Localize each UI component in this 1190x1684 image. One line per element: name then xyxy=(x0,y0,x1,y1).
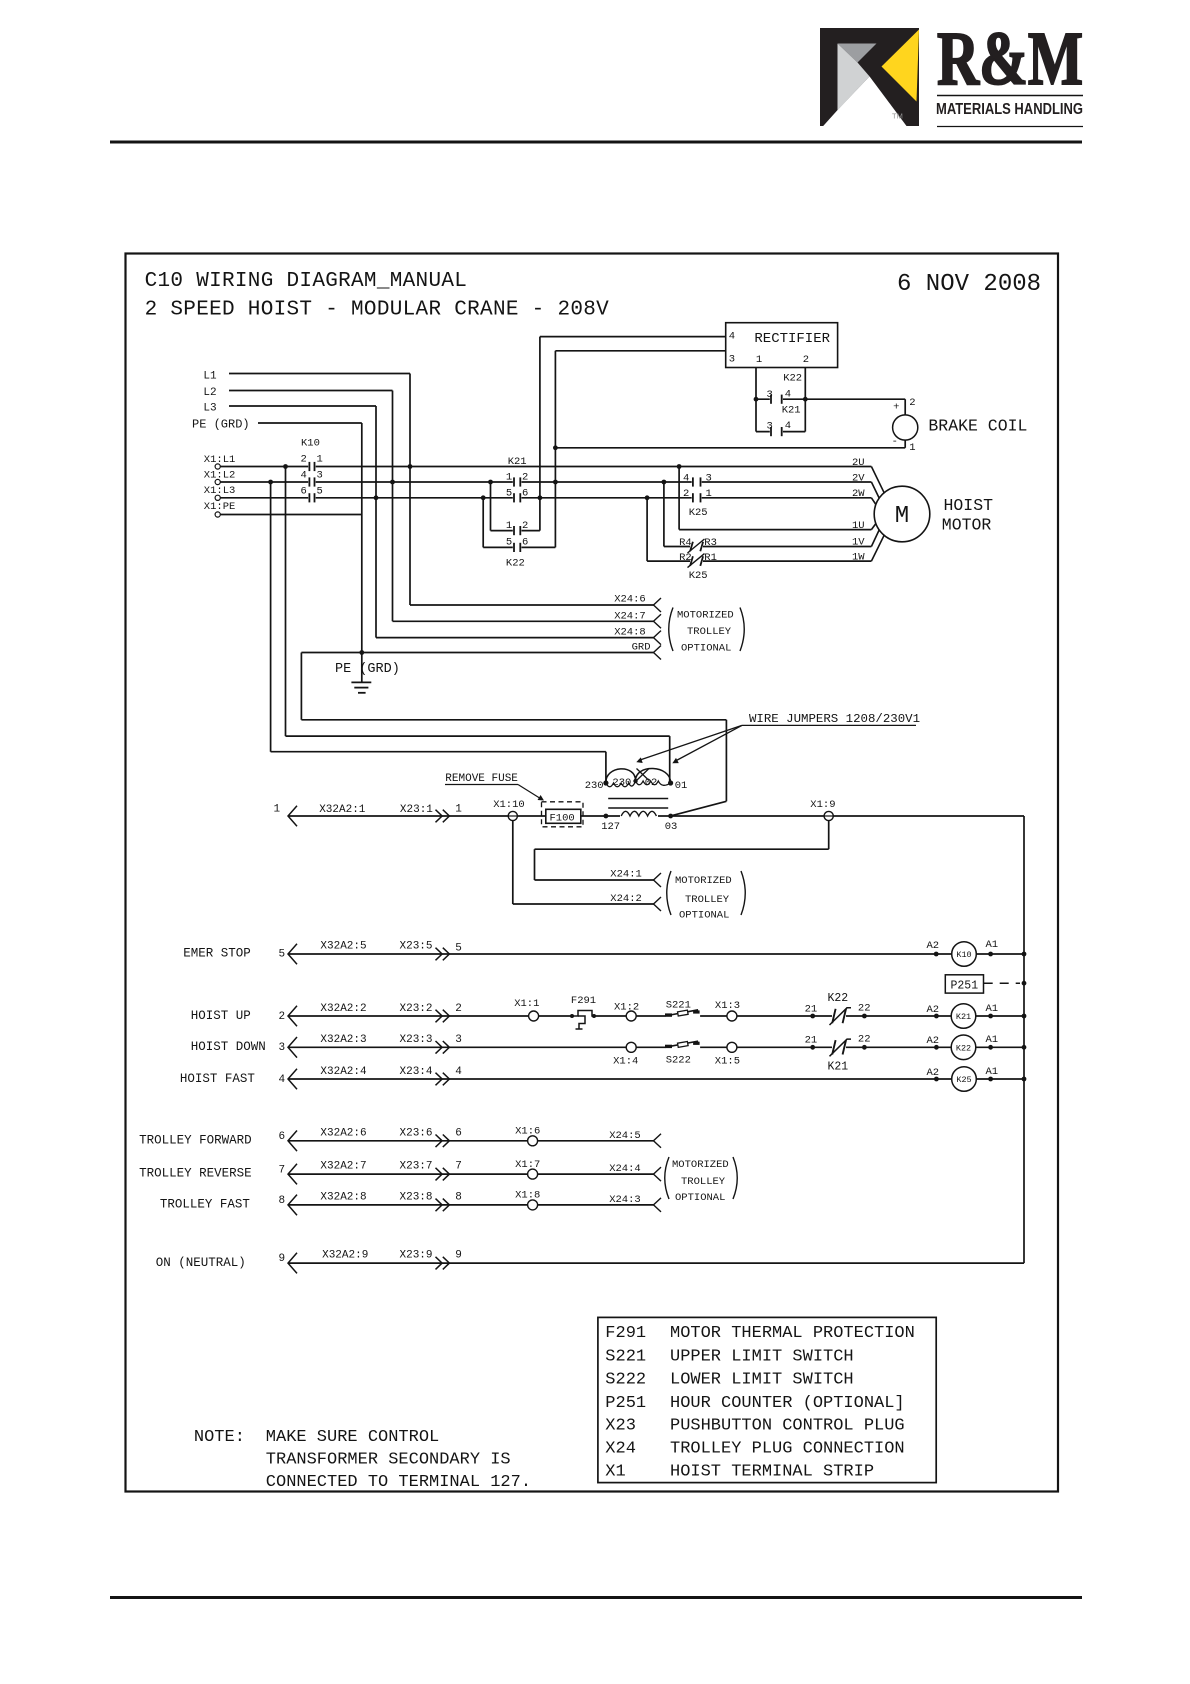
svg-text:2W: 2W xyxy=(852,488,865,500)
svg-text:F291: F291 xyxy=(571,995,596,1007)
svg-text:1: 1 xyxy=(274,804,281,816)
svg-text:PUSHBUTTON CONTROL PLUG: PUSHBUTTON CONTROL PLUG xyxy=(670,1417,905,1436)
svg-text:K10: K10 xyxy=(301,438,320,450)
svg-text:X23:2: X23:2 xyxy=(400,1003,433,1015)
svg-text:S221: S221 xyxy=(605,1348,646,1367)
svg-text:X1:L1: X1:L1 xyxy=(204,454,236,466)
svg-text:OPTIONAL: OPTIONAL xyxy=(679,910,729,922)
svg-text:TROLLEY FAST: TROLLEY FAST xyxy=(160,1198,251,1212)
svg-text:X23:6: X23:6 xyxy=(400,1127,433,1139)
svg-text:TROLLEY: TROLLEY xyxy=(687,626,732,638)
svg-text:6: 6 xyxy=(522,537,528,549)
svg-text:CONNECTED TO TERMINAL 127.: CONNECTED TO TERMINAL 127. xyxy=(266,1473,531,1492)
svg-text:X24:8: X24:8 xyxy=(614,626,646,638)
svg-text:2: 2 xyxy=(683,488,689,500)
svg-text:1W: 1W xyxy=(852,552,865,564)
svg-text:3: 3 xyxy=(455,1034,462,1046)
svg-text:K21: K21 xyxy=(782,405,801,417)
svg-text:X24:2: X24:2 xyxy=(610,893,642,905)
svg-text:3: 3 xyxy=(706,472,712,484)
svg-text:UPPER LIMIT SWITCH: UPPER LIMIT SWITCH xyxy=(670,1348,854,1367)
svg-text:4: 4 xyxy=(301,470,307,482)
svg-text:HOUR COUNTER (OPTIONAL]: HOUR COUNTER (OPTIONAL] xyxy=(670,1394,905,1413)
svg-text:1: 1 xyxy=(756,354,762,366)
svg-text:X32A2:1: X32A2:1 xyxy=(319,804,366,816)
svg-text:X1:PE: X1:PE xyxy=(204,501,236,513)
svg-text:1: 1 xyxy=(909,442,915,454)
svg-text:TROLLEY: TROLLEY xyxy=(681,1176,726,1188)
svg-text:K22: K22 xyxy=(956,1044,971,1054)
svg-text:GRD: GRD xyxy=(632,641,651,653)
svg-text:K10: K10 xyxy=(956,950,971,960)
svg-text:R&M: R&M xyxy=(937,17,1083,101)
svg-text:K21: K21 xyxy=(508,456,527,468)
svg-text:5: 5 xyxy=(506,488,512,500)
svg-text:1: 1 xyxy=(317,454,323,466)
svg-text:22: 22 xyxy=(858,1003,871,1015)
svg-text:R1: R1 xyxy=(704,552,717,564)
svg-text:TROLLEY REVERSE: TROLLEY REVERSE xyxy=(139,1167,252,1181)
svg-text:X1: X1 xyxy=(605,1462,625,1481)
svg-text:2U: 2U xyxy=(852,457,865,469)
svg-text:7: 7 xyxy=(279,1164,286,1176)
svg-text:TM: TM xyxy=(892,112,903,121)
svg-text:K22: K22 xyxy=(506,558,525,570)
svg-text:1V: 1V xyxy=(852,537,865,549)
svg-text:02: 02 xyxy=(645,777,658,789)
svg-text:X1:5: X1:5 xyxy=(715,1056,740,1068)
svg-text:WIRE JUMPERS 1208/230V1: WIRE JUMPERS 1208/230V1 xyxy=(749,712,920,726)
svg-text:9: 9 xyxy=(279,1253,286,1265)
svg-text:X32A2:9: X32A2:9 xyxy=(322,1250,368,1262)
svg-text:4: 4 xyxy=(785,389,791,401)
svg-text:X1:9: X1:9 xyxy=(810,799,835,811)
svg-text:3: 3 xyxy=(729,353,735,365)
svg-text:X23:4: X23:4 xyxy=(400,1066,433,1078)
svg-text:230: 230 xyxy=(585,780,604,792)
svg-text:2: 2 xyxy=(522,472,528,484)
svg-text:A1: A1 xyxy=(986,939,999,951)
svg-text:3: 3 xyxy=(767,389,773,401)
svg-text:X23:1: X23:1 xyxy=(400,804,433,816)
svg-text:X32A2:4: X32A2:4 xyxy=(320,1066,367,1078)
svg-text:F291: F291 xyxy=(605,1324,646,1343)
svg-text:X32A2:2: X32A2:2 xyxy=(320,1003,366,1015)
svg-text:C10 WIRING DIAGRAM_MANUAL: C10 WIRING DIAGRAM_MANUAL xyxy=(145,270,468,293)
svg-text:A2: A2 xyxy=(927,1067,940,1079)
svg-text:X23:8: X23:8 xyxy=(400,1191,433,1203)
svg-text:21: 21 xyxy=(805,1004,818,1016)
svg-text:MOTOR: MOTOR xyxy=(942,516,992,535)
svg-text:MATERIALS HANDLING: MATERIALS HANDLING xyxy=(936,101,1083,118)
svg-text:A2: A2 xyxy=(927,1035,940,1047)
svg-text:X32A2:5: X32A2:5 xyxy=(320,941,366,953)
svg-text:X24:7: X24:7 xyxy=(614,610,646,622)
svg-text:5: 5 xyxy=(279,949,286,961)
svg-text:TROLLEY PLUG CONNECTION: TROLLEY PLUG CONNECTION xyxy=(670,1440,905,1459)
svg-text:HOIST DOWN: HOIST DOWN xyxy=(191,1040,266,1054)
svg-text:A2: A2 xyxy=(927,940,940,952)
svg-text:TROLLEY: TROLLEY xyxy=(685,894,730,906)
svg-text:1U: 1U xyxy=(852,520,865,532)
svg-text:-: - xyxy=(892,436,898,448)
svg-text:X23:3: X23:3 xyxy=(400,1034,433,1046)
svg-text:X23:5: X23:5 xyxy=(400,941,433,953)
svg-text:LOWER LIMIT SWITCH: LOWER LIMIT SWITCH xyxy=(670,1371,854,1390)
svg-text:TRANSFORMER SECONDARY IS: TRANSFORMER SECONDARY IS xyxy=(266,1451,511,1470)
svg-text:2: 2 xyxy=(279,1011,286,1023)
svg-text:S222: S222 xyxy=(666,1055,691,1067)
svg-text:BRAKE COIL: BRAKE COIL xyxy=(928,417,1027,436)
svg-text:2: 2 xyxy=(803,354,809,366)
svg-text:X32A2:3: X32A2:3 xyxy=(320,1034,366,1046)
svg-text:PE (GRD): PE (GRD) xyxy=(192,418,250,432)
svg-text:MOTORIZED: MOTORIZED xyxy=(675,875,732,887)
svg-text:X1:3: X1:3 xyxy=(715,1000,740,1012)
svg-text:MOTORIZED: MOTORIZED xyxy=(677,610,734,622)
svg-text:S222: S222 xyxy=(605,1371,646,1390)
svg-text:MOTOR THERMAL PROTECTION: MOTOR THERMAL PROTECTION xyxy=(670,1324,915,1343)
svg-text:21: 21 xyxy=(805,1035,818,1047)
svg-text:1: 1 xyxy=(506,520,512,532)
svg-text:6 NOV 2008: 6 NOV 2008 xyxy=(897,271,1041,298)
svg-text:K21: K21 xyxy=(956,1012,971,1022)
svg-text:2: 2 xyxy=(909,397,915,409)
svg-text:+: + xyxy=(893,402,899,414)
svg-text:X1:4: X1:4 xyxy=(613,1056,638,1068)
svg-text:K22: K22 xyxy=(783,373,802,385)
svg-text:K25: K25 xyxy=(689,570,708,582)
svg-text:8: 8 xyxy=(455,1191,462,1203)
svg-text:L1: L1 xyxy=(203,371,217,383)
svg-text:OPTIONAL: OPTIONAL xyxy=(675,1192,725,1204)
svg-text:HOIST FAST: HOIST FAST xyxy=(180,1072,256,1086)
svg-text:R3: R3 xyxy=(704,537,717,549)
svg-text:REMOVE FUSE: REMOVE FUSE xyxy=(445,773,518,785)
svg-text:4: 4 xyxy=(455,1066,462,1078)
svg-text:6: 6 xyxy=(522,488,528,500)
svg-text:NOTE:: NOTE: xyxy=(194,1428,245,1447)
svg-text:X1:1: X1:1 xyxy=(514,998,539,1010)
svg-text:P251: P251 xyxy=(951,979,979,992)
svg-text:MAKE SURE CONTROL: MAKE SURE CONTROL xyxy=(266,1428,439,1447)
svg-text:3: 3 xyxy=(767,421,773,433)
svg-text:5: 5 xyxy=(317,486,323,498)
svg-text:S221: S221 xyxy=(666,1000,691,1012)
svg-text:PE (GRD): PE (GRD) xyxy=(335,662,400,677)
svg-text:4: 4 xyxy=(279,1074,286,1086)
svg-text:X23: X23 xyxy=(605,1417,636,1436)
svg-text:X1:7: X1:7 xyxy=(515,1159,540,1171)
svg-text:HOIST TERMINAL STRIP: HOIST TERMINAL STRIP xyxy=(670,1462,874,1481)
svg-text:01: 01 xyxy=(675,780,688,792)
svg-text:X24:5: X24:5 xyxy=(609,1130,641,1142)
svg-text:K25: K25 xyxy=(956,1075,971,1085)
svg-text:2: 2 xyxy=(455,1003,462,1015)
svg-text:HOIST UP: HOIST UP xyxy=(191,1009,251,1023)
svg-text:A1: A1 xyxy=(986,1003,999,1015)
svg-text:L2: L2 xyxy=(203,387,216,399)
svg-text:OPTIONAL: OPTIONAL xyxy=(681,643,731,655)
svg-text:03: 03 xyxy=(665,821,678,833)
svg-text:9: 9 xyxy=(455,1250,462,1262)
svg-text:5: 5 xyxy=(455,943,462,955)
svg-text:TROLLEY FORWARD: TROLLEY FORWARD xyxy=(139,1133,252,1147)
svg-text:A1: A1 xyxy=(986,1034,999,1046)
svg-text:4: 4 xyxy=(683,472,689,484)
svg-text:X1:2: X1:2 xyxy=(614,1002,639,1014)
svg-text:M: M xyxy=(895,503,909,530)
svg-text:2V: 2V xyxy=(852,473,865,485)
svg-text:4: 4 xyxy=(729,331,735,343)
svg-text:X1:10: X1:10 xyxy=(493,799,525,811)
svg-text:4: 4 xyxy=(785,420,791,432)
svg-text:X24:4: X24:4 xyxy=(609,1163,641,1175)
svg-text:P251: P251 xyxy=(605,1394,646,1413)
svg-text:X1:L2: X1:L2 xyxy=(204,470,236,482)
svg-text:X1:6: X1:6 xyxy=(515,1126,540,1138)
svg-text:L3: L3 xyxy=(203,403,216,415)
svg-text:6: 6 xyxy=(455,1127,462,1139)
svg-text:X23:9: X23:9 xyxy=(400,1250,433,1262)
svg-text:2: 2 xyxy=(301,454,307,466)
svg-text:HOIST: HOIST xyxy=(944,496,994,515)
svg-text:X24:6: X24:6 xyxy=(614,594,646,606)
svg-text:MOTORIZED: MOTORIZED xyxy=(672,1159,729,1171)
svg-text:X23:7: X23:7 xyxy=(400,1161,433,1173)
svg-text:X32A2:7: X32A2:7 xyxy=(320,1161,366,1173)
svg-text:X24: X24 xyxy=(605,1440,636,1459)
svg-text:3: 3 xyxy=(279,1042,286,1054)
svg-text:230: 230 xyxy=(612,777,631,789)
svg-text:A1: A1 xyxy=(986,1066,999,1078)
svg-text:6: 6 xyxy=(301,486,307,498)
svg-text:2: 2 xyxy=(522,520,528,532)
svg-text:X1:8: X1:8 xyxy=(515,1190,540,1202)
svg-text:7: 7 xyxy=(455,1161,462,1173)
svg-text:22: 22 xyxy=(858,1034,871,1046)
svg-text:K21: K21 xyxy=(828,1061,849,1074)
svg-text:X24:3: X24:3 xyxy=(609,1194,641,1206)
svg-text:2 SPEED HOIST - MODULAR CRANE: 2 SPEED HOIST - MODULAR CRANE - 208V xyxy=(145,299,610,322)
svg-text:K25: K25 xyxy=(689,507,708,519)
svg-text:3: 3 xyxy=(317,470,323,482)
svg-text:F100: F100 xyxy=(550,813,575,825)
svg-text:X1:L3: X1:L3 xyxy=(204,485,236,497)
svg-text:127: 127 xyxy=(601,821,620,833)
svg-text:1: 1 xyxy=(506,472,512,484)
svg-text:RECTIFIER: RECTIFIER xyxy=(754,331,830,347)
svg-text:EMER STOP: EMER STOP xyxy=(183,947,251,961)
svg-text:6: 6 xyxy=(279,1131,286,1143)
svg-text:5: 5 xyxy=(506,537,512,549)
svg-text:X24:1: X24:1 xyxy=(610,869,642,881)
svg-text:R4: R4 xyxy=(679,537,692,549)
svg-text:1: 1 xyxy=(706,488,712,500)
svg-text:1: 1 xyxy=(455,804,462,816)
svg-text:X32A2:6: X32A2:6 xyxy=(320,1127,366,1139)
svg-text:X32A2:8: X32A2:8 xyxy=(320,1191,366,1203)
svg-text:R2: R2 xyxy=(679,552,692,564)
svg-text:ON (NEUTRAL): ON (NEUTRAL) xyxy=(156,1256,246,1270)
svg-text:K22: K22 xyxy=(828,992,849,1005)
svg-text:8: 8 xyxy=(279,1195,286,1207)
svg-text:A2: A2 xyxy=(927,1004,940,1016)
